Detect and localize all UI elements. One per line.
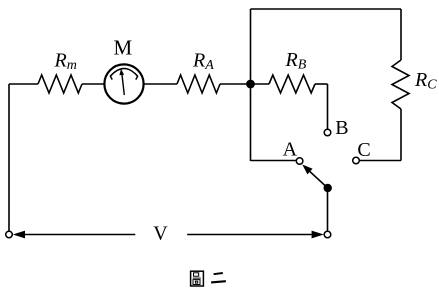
wire left vertical — [8, 84, 10, 231]
resistor Rm — [38, 75, 82, 93]
wire node vertical (top to A level) — [250, 9, 252, 161]
wire down to terminal B — [327, 84, 329, 129]
wire RA to node — [220, 83, 251, 85]
terminal left open circle — [6, 231, 13, 238]
wire V dimension line left segment — [24, 234, 135, 236]
wire RB to corner — [315, 83, 328, 85]
meter M body circle — [104, 64, 143, 103]
resistor RA — [177, 75, 220, 93]
switch pivot dot — [324, 184, 332, 192]
svg-text:C: C — [357, 139, 370, 161]
wire right vertical lower — [400, 109, 402, 161]
wire Rm to meter — [82, 83, 104, 85]
switch arm blade line — [308, 170, 328, 188]
wire meter to RA — [144, 83, 177, 85]
wire switch pivot down to bottom terminal — [327, 188, 329, 231]
meter M scale arc with end ticks — [110, 69, 137, 80]
caption 圖二 (Figure 2) drawn as strokes — [191, 271, 226, 286]
wire top horizontal — [251, 8, 402, 10]
svg-text:B: B — [335, 117, 348, 139]
terminal A open circle — [296, 158, 303, 165]
wire left horizontal to Rm — [9, 83, 38, 85]
terminal bottom switch pole open circle — [324, 231, 331, 238]
switch arm arrowhead pointing at A — [302, 165, 312, 175]
svg-text:RC: RC — [414, 69, 437, 93]
terminal B open circle — [324, 129, 331, 136]
wire horizontal to terminal A — [251, 160, 297, 162]
svg-text:M: M — [113, 36, 132, 60]
node junction dot — [246, 80, 255, 89]
V arrow left arrowhead — [13, 231, 25, 239]
svg-text:V: V — [153, 223, 168, 245]
wire node to RB — [251, 83, 270, 85]
svg-text:A: A — [283, 138, 298, 160]
svg-text:Rm: Rm — [54, 50, 77, 74]
resistor RB — [269, 75, 315, 93]
svg-text:RB: RB — [285, 49, 307, 73]
resistor RC — [392, 60, 409, 109]
terminal C open circle — [353, 157, 360, 164]
wire right vertical upper — [400, 9, 402, 60]
wire V dimension line right segment — [187, 234, 312, 236]
wire horizontal to terminal C — [359, 160, 401, 162]
V arrow right arrowhead — [312, 231, 324, 239]
svg-text:RA: RA — [192, 49, 214, 73]
meter M needle — [119, 69, 124, 95]
